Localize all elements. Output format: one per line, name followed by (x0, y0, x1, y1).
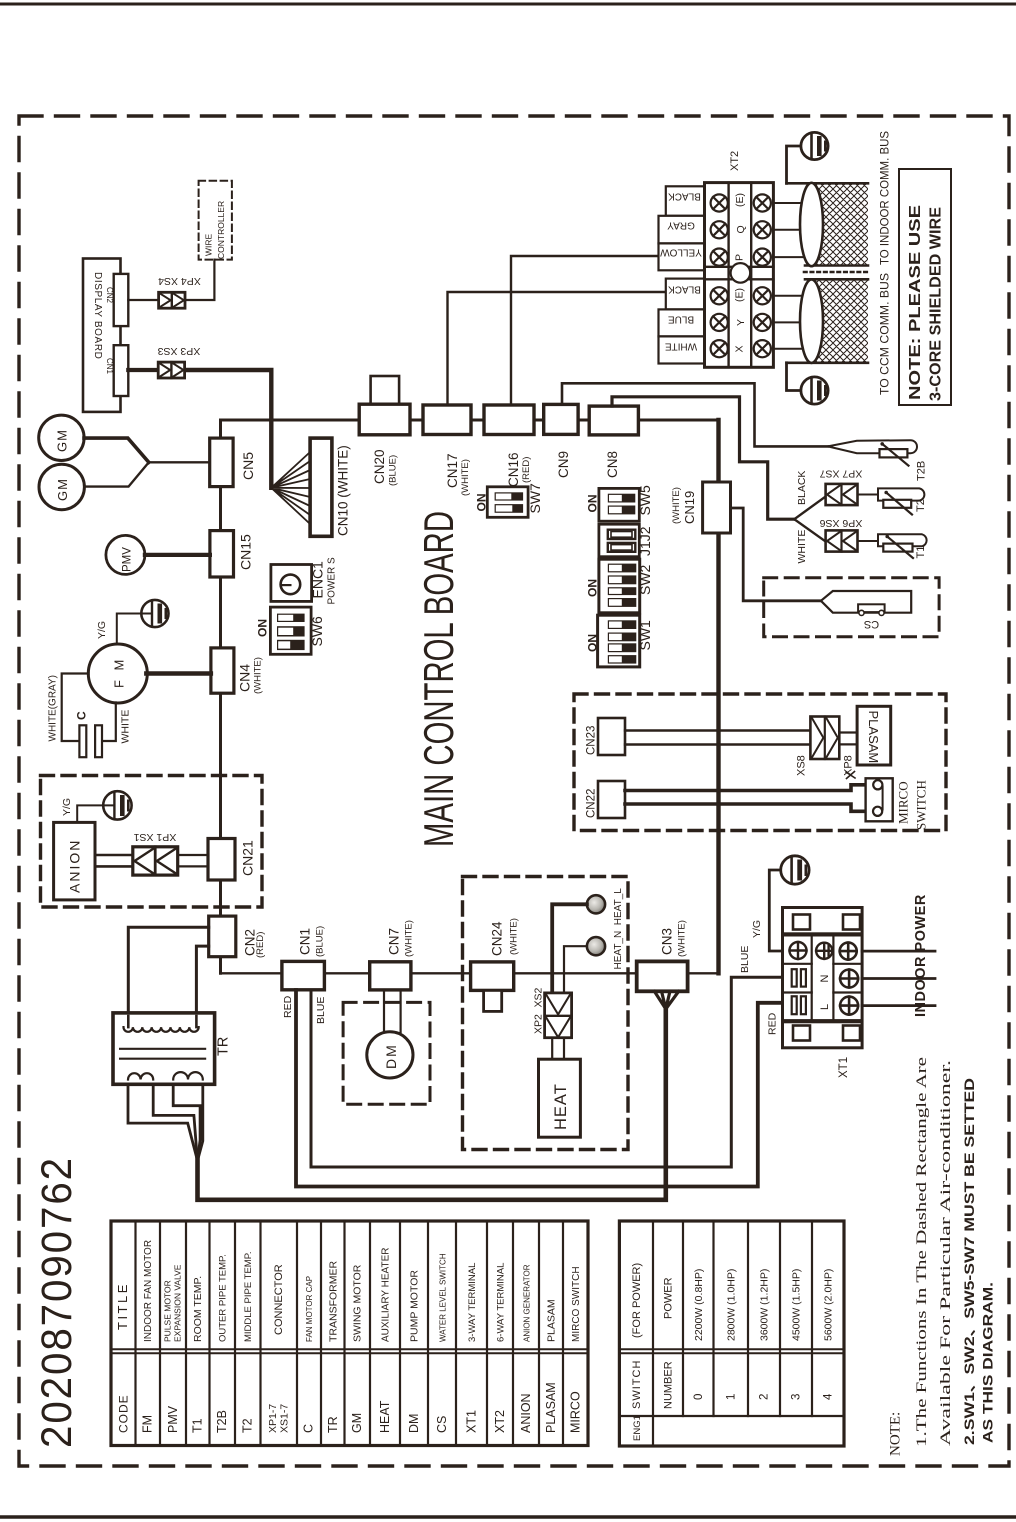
wire junction to XS7 black (794, 497, 825, 520)
svg-text:CN1: CN1 (105, 358, 114, 375)
svg-text:CN2: CN2 (105, 287, 114, 304)
svg-text:Y/G: Y/G (751, 920, 763, 938)
svg-text:BLACK: BLACK (796, 471, 808, 505)
svg-text:WATER LEVEL SWITCH: WATER LEVEL SWITCH (439, 1253, 448, 1342)
dashed option rectangle (CN22/CN23 devices) (574, 694, 946, 831)
wire FM to CN4 (146, 671, 211, 675)
wire CN1 blue bus (311, 977, 783, 1167)
svg-text:XS2: XS2 (533, 987, 545, 1007)
svg-text:(RED): (RED) (521, 457, 532, 483)
wire display CN1 to XS3 (128, 368, 158, 372)
svg-text:XP7 XS7: XP7 XS7 (820, 468, 863, 480)
pulse motor valve PMV (106, 535, 145, 574)
ground symbol cable top (787, 132, 829, 183)
svg-text:ON: ON (586, 495, 600, 513)
svg-text:CN22: CN22 (586, 789, 598, 818)
svg-text:(RED): (RED) (255, 932, 266, 958)
wire FM white(gray) to capacitor (62, 674, 89, 742)
fan motor FM (88, 644, 147, 703)
svg-text:SWITCH: SWITCH (914, 780, 929, 830)
connector CN5 (210, 438, 233, 487)
svg-text:CONNECTOR: CONNECTOR (273, 1264, 285, 1335)
svg-text:Available For Particular Air-c: Available For Particular Air-conditioner… (938, 1060, 954, 1446)
svg-text:HEAT: HEAT (552, 1083, 570, 1130)
svg-text:CN4: CN4 (237, 664, 253, 692)
connector CN7 (370, 962, 411, 990)
connector CN21 (208, 839, 235, 881)
connector pair XS7 XP7 (820, 468, 863, 506)
svg-text:ENC1: ENC1 (310, 561, 326, 599)
wire FM to ground Y/G (117, 614, 152, 645)
connector pair XP4 XS4 (158, 275, 201, 308)
wire CN23 to XS8 (625, 731, 811, 745)
svg-text:5600W (2.0HP): 5600W (2.0HP) (823, 1269, 835, 1341)
svg-text:BLACK: BLACK (668, 191, 701, 202)
connector CN4 (211, 648, 234, 693)
svg-text:CN17: CN17 (445, 453, 460, 488)
svg-text:NOTE: PLEASE USE: NOTE: PLEASE USE (907, 205, 924, 400)
svg-text:CN1: CN1 (298, 928, 313, 955)
svg-text:CN9: CN9 (556, 451, 571, 478)
wire CN9 to T2B (562, 383, 828, 446)
connector CN20 stub (371, 376, 400, 405)
thermistor T2B (828, 440, 928, 481)
dip switch SW1 (586, 615, 654, 667)
svg-text:(WHITE): (WHITE) (253, 657, 264, 694)
micro switch (866, 778, 893, 821)
svg-text:AUXILIARY HEATER: AUXILIARY HEATER (381, 1248, 392, 1342)
heater neutral ball HEAT_N (587, 937, 605, 955)
svg-text:T2: T2 (241, 1418, 255, 1433)
cable top ellipse (800, 183, 823, 266)
svg-text:NOTE:: NOTE: (888, 1412, 904, 1456)
thermistor T2 (878, 488, 927, 514)
stray cross mark (846, 772, 855, 779)
svg-text:XT2: XT2 (493, 1410, 507, 1433)
power selection table texts (631, 1263, 835, 1441)
svg-text:CS: CS (435, 1416, 449, 1433)
connector CN1 (282, 961, 325, 989)
svg-text:ENG1: ENG1 (632, 1415, 643, 1441)
svg-text:CN19: CN19 (682, 491, 697, 524)
svg-text:XT1: XT1 (465, 1410, 479, 1433)
svg-text:INDOOR FAN MOTOR: INDOOR FAN MOTOR (143, 1240, 154, 1342)
shield separator dotted (804, 271, 869, 274)
svg-text:GM: GM (55, 478, 70, 501)
legend table CODE row texts (117, 1382, 583, 1433)
svg-text:TR: TR (216, 1037, 232, 1056)
wire ANION to ground Y/G (77, 805, 114, 822)
XT1 earth screw left (790, 942, 807, 959)
svg-text:(WHITE): (WHITE) (460, 459, 471, 496)
svg-text:L: L (819, 1004, 831, 1010)
wire GM bottom to junction (84, 462, 148, 486)
svg-text:6-WAY TERMINAL: 6-WAY TERMINAL (496, 1263, 507, 1342)
svg-text:WHITE(GRAY): WHITE(GRAY) (48, 675, 59, 741)
connector CN16 (484, 405, 534, 435)
wire GM top to junction (84, 438, 149, 462)
connector CN23 (598, 718, 625, 755)
svg-text:PMV: PMV (166, 1405, 180, 1433)
svg-text:ON: ON (475, 494, 489, 512)
svg-text:MIRCO: MIRCO (896, 781, 911, 824)
connector CN24 (471, 962, 514, 991)
ground symbol at fan motor (141, 600, 168, 627)
svg-text:FAN MOTOR CAP: FAN MOTOR CAP (305, 1276, 314, 1342)
plasam generator box (857, 706, 891, 765)
transformer output bus (198, 1009, 666, 1200)
wire FM white to capacitor (102, 703, 116, 742)
svg-text:CS: CS (864, 618, 879, 630)
svg-text:PLASAM: PLASAM (546, 1299, 558, 1342)
svg-text:GRAY: GRAY (667, 220, 695, 231)
svg-text:XT2: XT2 (729, 151, 741, 171)
dip switch SW2 (586, 559, 654, 613)
svg-text:CN21: CN21 (240, 840, 256, 876)
wires XT1 to indoor power (862, 951, 935, 1006)
svg-text:SW1: SW1 (637, 620, 653, 651)
shielded cable top hatch (787, 183, 869, 265)
svg-text:AS THIS DIAGRAM.: AS THIS DIAGRAM. (981, 1282, 996, 1443)
svg-text:DM: DM (383, 1043, 399, 1069)
svg-text:2: 2 (759, 1394, 771, 1400)
wire XP8 to plasam (839, 733, 857, 745)
svg-text:2200W (0.8HP): 2200W (0.8HP) (693, 1269, 705, 1341)
svg-text:GM: GM (350, 1413, 364, 1433)
svg-text:J1J2: J1J2 (637, 526, 653, 556)
XT1 screws right column (840, 943, 858, 1015)
svg-text:EXPANSION VALVE: EXPANSION VALVE (173, 1264, 183, 1342)
svg-text:CN5: CN5 (240, 452, 256, 480)
svg-text:XP4 XS4: XP4 XS4 (158, 275, 201, 287)
svg-text:Y: Y (735, 319, 747, 326)
svg-text:CN24: CN24 (490, 921, 505, 956)
wire CN19 to CS (731, 508, 821, 601)
transformer TR (113, 1013, 232, 1084)
svg-text:T1: T1 (191, 1418, 205, 1433)
svg-text:4: 4 (823, 1393, 835, 1400)
capacitor C (75, 711, 103, 757)
svg-text:N: N (819, 975, 831, 983)
svg-text:SW7: SW7 (527, 483, 543, 514)
dashed box heater option (463, 877, 629, 1150)
svg-text:(BLUE): (BLUE) (388, 455, 399, 486)
jumpers J1J2 (599, 524, 653, 557)
svg-text:BLUE: BLUE (668, 314, 694, 325)
svg-text:ROOM TEMP.: ROOM TEMP. (192, 1276, 204, 1342)
page top rule (0, 3, 1016, 6)
svg-text:NUMBER: NUMBER (663, 1361, 675, 1409)
thermistor T1 (878, 534, 927, 558)
svg-text:F M: F M (112, 657, 127, 688)
fan into CN3 (655, 992, 679, 1010)
svg-text:ON: ON (586, 579, 600, 597)
XT2 screw terminals left column (711, 194, 728, 357)
svg-text:TO INDOOR COMM. BUS: TO INDOOR COMM. BUS (880, 131, 892, 265)
display board connector CN2 (114, 274, 129, 326)
svg-text:DISPLAY BOARD: DISPLAY BOARD (92, 272, 103, 359)
svg-text:PLASAM: PLASAM (544, 1382, 558, 1433)
terminal block XT2 (705, 183, 774, 368)
anion generator box (54, 822, 95, 900)
ground symbol at anion (103, 791, 131, 819)
display board connector CN1 (114, 345, 129, 396)
svg-text:ANION GENERATOR: ANION GENERATOR (523, 1264, 532, 1342)
svg-text:(E): (E) (734, 288, 746, 302)
svg-text:XS8: XS8 (796, 755, 808, 776)
svg-text:POWER S: POWER S (327, 557, 338, 605)
dip switch SW5 (586, 485, 654, 521)
connector pair XS1 XP1 (133, 831, 178, 875)
svg-text:1: 1 (726, 1394, 738, 1400)
svg-text:XP6 XS6: XP6 XS6 (820, 517, 863, 529)
svg-text:CN8: CN8 (605, 451, 620, 478)
svg-text:CODE: CODE (117, 1394, 131, 1433)
water level switch CS (821, 591, 911, 630)
display board outline (83, 259, 121, 412)
svg-text:MIRCO: MIRCO (569, 1391, 583, 1433)
svg-text:BLUE: BLUE (739, 946, 751, 973)
wire controller to XP4 (185, 260, 214, 300)
wire XP7 to T2 (858, 494, 879, 496)
encoder ENC1 (271, 557, 338, 605)
svg-text:YELLOW: YELLOW (660, 247, 702, 258)
svg-text:2800W (1.0HP): 2800W (1.0HP) (726, 1269, 738, 1341)
svg-text:ANION: ANION (67, 839, 83, 893)
svg-text:SWING MOTOR: SWING MOTOR (352, 1264, 364, 1342)
svg-text:TRANSFORMER: TRANSFORMER (328, 1261, 340, 1343)
wire CN22 to micro switch (625, 785, 874, 791)
connector CN10 (310, 438, 332, 536)
wire CN7 to pump motor (384, 990, 401, 1033)
connector CN15 (210, 531, 234, 577)
wire XP1 to CN21 (178, 855, 208, 866)
svg-text:DM: DM (407, 1414, 421, 1433)
svg-text:WHITE: WHITE (796, 530, 808, 564)
swing motor GM top (39, 415, 84, 460)
svg-text:(E): (E) (734, 193, 746, 207)
terminal XT2 color labels bottom (659, 279, 705, 364)
swing motor GM bottom (39, 464, 84, 509)
wire XP3 bus to CN10 fan point (185, 370, 272, 488)
pump motor DM (367, 1032, 413, 1078)
svg-text:X: X (734, 345, 746, 352)
svg-text:T1: T1 (915, 546, 927, 559)
dip switch SW7 (475, 483, 544, 517)
svg-text:XP2: XP2 (533, 1014, 545, 1034)
dip switch SW6 (256, 607, 326, 654)
svg-text:CN16: CN16 (506, 452, 521, 487)
wire junction to CN5 (149, 461, 210, 463)
svg-text:FM: FM (141, 1415, 155, 1433)
power selection table frame (619, 1221, 844, 1446)
connector pair XP3 XS3 (158, 345, 201, 378)
auxiliary heater HEAT (539, 1059, 581, 1137)
svg-text:(WHITE): (WHITE) (404, 920, 415, 957)
svg-text:202087090762: 202087090762 (33, 1156, 81, 1448)
svg-text:SW2: SW2 (637, 564, 653, 595)
ground symbol cable bottom (787, 363, 829, 404)
svg-text:OUTER PIPE TEMP.: OUTER PIPE TEMP. (218, 1254, 229, 1342)
svg-text:TR: TR (326, 1416, 340, 1433)
svg-text:CN23: CN23 (586, 726, 598, 755)
wire CN1 red bus (296, 990, 783, 1187)
svg-text:3600W (1.2HP): 3600W (1.2HP) (759, 1269, 771, 1341)
wire HEAT_N to XS2 (564, 946, 587, 993)
svg-text:RED: RED (282, 995, 294, 1018)
svg-text:PUMP MOTOR: PUMP MOTOR (409, 1270, 421, 1342)
wire HEAT_L to XS2 (552, 904, 587, 993)
svg-text:CONTROLLER: CONTROLLER (216, 201, 226, 259)
svg-text:3-CORE SHIELDED WIRE: 3-CORE SHIELDED WIRE (928, 207, 945, 401)
svg-text:WIRE: WIRE (204, 233, 214, 256)
svg-text:TITLE: TITLE (115, 1282, 130, 1330)
wire ANION to XS1 (95, 855, 133, 866)
svg-text:WHITE: WHITE (120, 710, 132, 744)
connector CN2 (209, 916, 236, 957)
connector pair XS2 XP2 (533, 987, 572, 1037)
svg-text:4500W (1.5HP): 4500W (1.5HP) (791, 1269, 803, 1341)
svg-text:T2B: T2B (916, 461, 928, 481)
svg-text:(FOR POWER): (FOR POWER) (631, 1263, 643, 1338)
svg-text:RED: RED (767, 1012, 779, 1035)
XT2 screw terminals right column (754, 194, 771, 357)
XT1 clamp bars N row (792, 969, 806, 986)
svg-text:T2: T2 (915, 499, 927, 512)
svg-text:SWITCH: SWITCH (631, 1360, 643, 1409)
svg-text:ANION: ANION (519, 1393, 533, 1433)
connector CN3 (637, 961, 688, 991)
shielded cable bottom hatch (787, 279, 869, 363)
svg-text:2.SW1、SW2、SW5-SW7 MUST BE SETT: 2.SW1、SW2、SW5-SW7 MUST BE SETTED (962, 1078, 977, 1445)
svg-text:MIDDLE PIPE TEMP.: MIDDLE PIPE TEMP. (243, 1252, 254, 1342)
connector CN8 (589, 406, 638, 435)
svg-text:XP1-7: XP1-7 (267, 1404, 279, 1433)
page bottom rule (0, 1515, 1016, 1518)
svg-text:TO CCM COMM. BUS: TO CCM COMM. BUS (880, 273, 892, 395)
note box shielded wire (899, 169, 951, 405)
svg-text:SW6: SW6 (309, 616, 325, 647)
svg-text:1.The Functions In The Dashed: 1.The Functions In The Dashed Rectangle … (914, 1057, 930, 1447)
connector CN9 (544, 404, 578, 434)
XT1 clamp bars L row (792, 996, 806, 1014)
legend table TITLE row texts (115, 1240, 582, 1342)
dashed box pump motor (343, 1002, 430, 1104)
wire XP6 to T1 (858, 540, 879, 542)
connector CN22 (598, 781, 625, 818)
connector CN19 (703, 482, 731, 533)
svg-text:CN10 (WHITE): CN10 (WHITE) (336, 445, 351, 536)
svg-text:PULSE MOTOR: PULSE MOTOR (163, 1280, 173, 1342)
transformer secondary wires (128, 1085, 203, 1158)
wire CN17 to terminal strip (448, 292, 666, 405)
svg-text:HEAT: HEAT (378, 1400, 392, 1433)
svg-text:(BLUE): (BLUE) (315, 926, 326, 957)
svg-text:PMV: PMV (122, 547, 134, 572)
wires XT2 to cable bottom (773, 296, 814, 349)
svg-text:XT1: XT1 (838, 1057, 850, 1078)
svg-text:P: P (734, 254, 746, 261)
wire display CN2 to XS4 (128, 299, 158, 301)
ground symbol at XT1 (769, 856, 809, 951)
svg-text:MIRCO SWITCH: MIRCO SWITCH (571, 1266, 582, 1342)
svg-text:Q: Q (735, 225, 747, 233)
terminal block XT1 (783, 908, 863, 1048)
svg-text:SW5: SW5 (637, 485, 653, 516)
connector CN17 (423, 405, 471, 435)
svg-text:3: 3 (791, 1394, 803, 1400)
svg-text:(WHITE): (WHITE) (677, 920, 688, 957)
svg-text:CN15: CN15 (238, 534, 254, 570)
XT1 earth screw middle (816, 943, 832, 959)
heater live ball HEAT_L (587, 895, 605, 913)
svg-text:BLUE: BLUE (315, 997, 327, 1024)
connector CN20 (359, 404, 410, 435)
main control board outline (221, 420, 719, 973)
svg-text:XS1-7: XS1-7 (279, 1404, 291, 1433)
svg-text:0: 0 (693, 1394, 705, 1400)
svg-text:(WHITE): (WHITE) (671, 487, 682, 524)
svg-text:XP1 XS1: XP1 XS1 (134, 831, 177, 843)
svg-text:ON: ON (256, 619, 270, 637)
svg-text:C: C (75, 711, 89, 720)
connector pair XS8 XP8 (796, 717, 855, 777)
wire PMV to CN15 (145, 553, 210, 557)
svg-text:CN3: CN3 (660, 928, 675, 955)
wire CN16 to terminal strip (511, 256, 659, 405)
dashed box CS (764, 578, 939, 637)
connector pair XS6 XP6 (820, 517, 863, 552)
svg-text:(WHITE): (WHITE) (509, 918, 520, 955)
wires XT2 to cable top (773, 203, 814, 257)
svg-text:C: C (302, 1424, 316, 1433)
svg-text:WHITE: WHITE (665, 341, 698, 352)
wire CN2 to transformer primary (128, 927, 208, 1016)
svg-text:MAIN CONTROL BOARD: MAIN CONTROL BOARD (415, 511, 462, 847)
XT2 pin names (734, 193, 748, 353)
svg-text:ON: ON (586, 634, 600, 652)
connector CN24 stub (484, 990, 502, 1011)
svg-text:XP3 XS3: XP3 XS3 (158, 345, 201, 357)
svg-text:BLACK: BLACK (668, 284, 701, 295)
svg-text:PLASAM: PLASAM (866, 711, 881, 764)
wire fan out to CN10 (271, 452, 310, 524)
svg-text:POWER: POWER (663, 1277, 675, 1319)
legend table frame (111, 1221, 588, 1446)
wire controller dashed box (199, 181, 232, 260)
svg-text:HEAT_N HEAT_L: HEAT_N HEAT_L (613, 888, 624, 970)
cable bottom ellipse (800, 280, 823, 363)
svg-text:GM: GM (55, 429, 70, 452)
svg-text:3-WAY TERMINAL: 3-WAY TERMINAL (467, 1263, 478, 1342)
wire CN8 to sensor junction (612, 397, 794, 519)
svg-text:Y/G: Y/G (96, 621, 108, 639)
wire junction to XS6 white (794, 519, 825, 541)
svg-text:Y/G: Y/G (61, 798, 73, 816)
svg-text:CN7: CN7 (387, 928, 402, 955)
svg-text:CN20: CN20 (372, 449, 387, 484)
svg-text:T2B: T2B (215, 1410, 229, 1433)
wire XP2 to heater (552, 1038, 564, 1060)
svg-text:INDOOR POWER: INDOOR POWER (913, 894, 929, 1017)
dashed box ANION (41, 776, 263, 908)
terminal XT2 color labels top (659, 186, 705, 270)
